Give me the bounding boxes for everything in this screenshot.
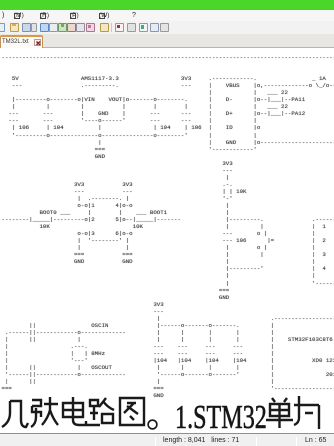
svg-text:1.STM32: 1.STM32	[175, 399, 267, 434]
